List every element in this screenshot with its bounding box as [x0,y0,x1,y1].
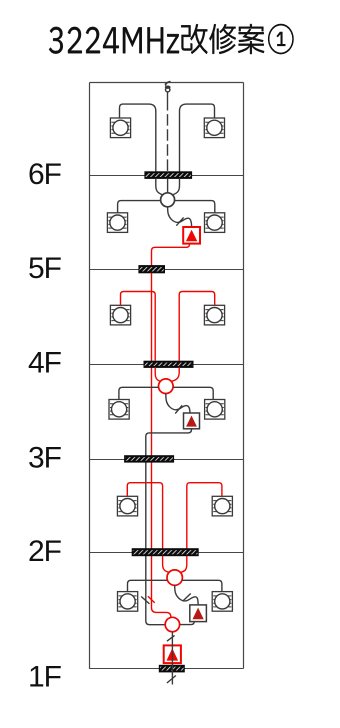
wire 6F right outlet to sleeve [180,104,215,172]
splitter 1F lower (circle, new) [165,617,179,631]
booster 1F right (existing) [190,605,207,622]
break slash 5F [176,217,183,225]
svg-text:6F: 6F [28,158,62,191]
svg-text:4F: 4F [28,346,62,379]
wire splitter 5F to left outlet [118,201,161,213]
antenna feed squiggle [166,82,171,86]
wire splitter 5F to booster 5F [168,207,192,227]
floor sleeve 3F [125,456,174,462]
TV outlet 2F left [117,496,137,516]
wire 6F left outlet to sleeve [120,104,156,172]
wire splitter 3F to booster 3F [166,394,190,414]
TV outlet 6F right [204,118,224,138]
floor line 3F [89,459,244,461]
wire splitter 3F to left outlet [119,387,159,399]
riser drop cable (dashed) [167,92,169,99]
splitter 1F upper (circle, new) [167,570,182,585]
svg-text:1F: 1F [28,660,62,693]
wire splitter 1F to booster 1F right [175,585,198,605]
splitter 5F (circle) [161,193,175,207]
wire splitter 5F to right outlet [175,201,215,213]
floor line 5F [89,269,244,271]
title text "3224MHz改修案①" [49,24,294,54]
booster 3F (existing) [184,413,200,429]
break slash on red riser 1F [148,596,155,603]
wires sleeve 2F down to splitter 1F (new) [163,556,170,573]
TV outlet 4F left [110,305,130,325]
TV outlet 5F left [107,213,127,233]
svg-text:3F: 3F [28,442,62,475]
wire 4F right outlet to sleeve 4F (new) [179,292,215,361]
floor sleeve 6F [145,172,192,179]
break slash on black riser 1F [141,597,149,604]
wires sleeve 6F down to splitter 5F [156,178,163,195]
new riser cable 5F sleeve down to 1F (red) [152,273,171,617]
wire splitter 1F lower down to ground [171,632,173,685]
svg-text:2F: 2F [28,535,62,568]
wire splitter 1F to left outlet [128,580,168,591]
wire booster 1F right output to splitter 1F lower right [180,622,195,625]
building frame right wall [243,83,245,669]
TV outlet 1F right [212,592,232,612]
splitter 3F (circle, new) [159,379,174,394]
break slash below splitter 1F [167,635,175,641]
floor sleeve 5F [139,266,165,273]
booster 1F main (new) [164,645,181,663]
floor line 1F [89,668,244,670]
wire 2F right outlet to sleeve 2F (new) [187,483,222,549]
TV outlet 3F right [205,400,225,420]
TV outlet 2F right [212,496,232,516]
TV outlet 4F right [204,305,224,325]
TV outlet 3F left [109,400,129,420]
wire 4F left outlet to sleeve 4F (new) [121,292,156,361]
TV outlet 6F left [110,118,130,138]
wire splitter 3F to right outlet [173,387,213,399]
booster 5F (new) [183,227,200,244]
wires sleeve 4F down to splitter 3F (new) [155,367,161,381]
roof line [90,82,244,84]
floor sleeve 2F [132,549,198,556]
wire splitter 1F to right outlet [182,580,222,591]
floor line 2F [89,552,244,554]
building frame left wall [89,83,91,669]
floor line 4F [89,364,244,366]
floor sleeve 4F [144,361,193,367]
wire booster 5F to floor sleeve 5F (new) [152,244,190,266]
TV outlet 1F left [118,592,138,612]
floor line 6F [89,175,244,177]
TV outlet 5F right [205,213,225,233]
wire 2F left outlet to sleeve 2F (new) [127,483,162,549]
svg-text:5F: 5F [28,252,62,285]
break slash 3F [175,405,182,413]
wire booster 3F riser down to splitter 1F lower left [146,429,192,625]
break slash 1F right [183,594,191,601]
floor sleeve 1F [159,665,184,672]
break slash below sleeve 1F [167,676,176,684]
